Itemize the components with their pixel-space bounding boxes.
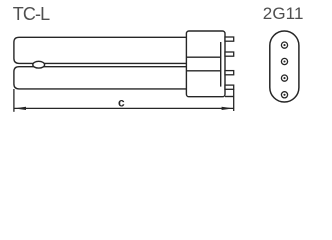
pin 1 [225,37,234,41]
pin 4 [225,85,234,89]
pin 3 [225,71,234,75]
dimension extension line right [233,89,235,111]
base body [186,31,225,97]
base hole 4 [281,92,287,98]
lamp bottom tube [14,67,187,89]
base bottom edge extension to pin line [225,96,234,98]
base hole 3 [281,75,287,81]
exhaust tip ellipse [33,61,45,68]
svg-text:c: c [118,96,125,110]
dimension arrow left [14,107,26,110]
pin 2 [225,52,234,56]
svg-text:2G11: 2G11 [263,4,304,23]
base upper horizontal line [186,56,220,58]
lamp top tube [14,37,187,63]
dimension arrow right [222,107,234,110]
dimension extension line left [13,89,15,112]
2G11 base outline (stadium) [270,31,299,102]
base internal vertical line [220,42,222,87]
base hole 1 [281,42,287,48]
svg-text:TC-L: TC-L [13,4,50,24]
dimension line c [14,107,234,109]
base lower horizontal line [186,70,220,72]
base hole 2 [281,58,287,64]
